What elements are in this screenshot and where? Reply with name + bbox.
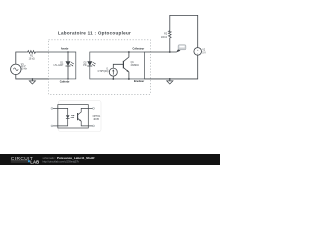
phototransistor sub-box — [90, 52, 145, 79]
junction collecteur R2 — [169, 51, 171, 53]
footer logo CIRCUITLAB — [11, 156, 40, 165]
svg-text:60 Hz: 60 Hz — [21, 69, 28, 71]
dashed model box — [49, 40, 151, 95]
wire R2 top to V2 — [170, 15, 198, 47]
voltage source V1 — [11, 64, 21, 74]
probe icon — [176, 45, 186, 53]
wire R1 to LED box anode corner — [36, 51, 48, 53]
junction I1-emitter rail — [112, 78, 114, 80]
terminal top-right — [93, 108, 95, 110]
voltage source V2 — [194, 48, 202, 56]
pin stub bottom-right — [88, 125, 92, 127]
svg-text:Cathode: Cathode — [60, 81, 70, 84]
footer text schematic name — [43, 156, 95, 164]
ground (right) — [167, 79, 173, 84]
svg-text:100 Ω: 100 Ω — [161, 37, 167, 39]
junction D1 anode rail — [67, 51, 68, 52]
U1 phototransistor — [78, 108, 89, 126]
pin stub bottom-left — [53, 125, 58, 127]
U1 internal LED — [58, 108, 70, 126]
wire V2 bottom to emetteur rail — [145, 55, 198, 79]
resistor R1 — [27, 51, 37, 54]
label R2 100 Ohm — [161, 34, 168, 39]
label OPTO1 4N35 — [93, 116, 101, 121]
junction D1 cathode rail — [67, 78, 68, 79]
label V1 — [21, 64, 28, 71]
LED D1 — [66, 52, 74, 79]
wire V1 top to R1 — [16, 52, 27, 64]
svg-text:Collecteur: Collecteur — [132, 48, 144, 51]
svg-text:LAB: LAB — [30, 159, 39, 164]
wire collecteur to probe — [145, 51, 177, 53]
wire I1 bottom to rail — [112, 76, 114, 79]
svg-text:Anode: Anode — [61, 47, 69, 50]
wire V1 bottom to LED box cathode corner — [16, 74, 49, 79]
U1 light arrows — [71, 115, 75, 118]
label Q1 2N3904 — [131, 62, 140, 67]
current source I1 — [109, 68, 117, 76]
terminal top-left — [51, 108, 53, 110]
transistor Q1 — [123, 52, 128, 79]
label I1 CTR x I(D1) — [98, 69, 109, 74]
svg-text:CTR*I(D1): CTR*I(D1) — [98, 71, 109, 73]
junction Q1 collector rail — [128, 51, 130, 53]
svg-text:5 V: 5 V — [202, 52, 206, 54]
terminal bottom-right — [93, 125, 95, 127]
label R1 10 kOhm — [29, 56, 35, 61]
svg-text:schematic : Puissance_Labo11_M: schematic : Puissance_Labo11_Modif — [43, 156, 95, 160]
terminal bottom-left — [51, 125, 53, 127]
junction Q1 emitter rail — [128, 78, 130, 80]
wire I1 top to Q1 base — [113, 64, 123, 68]
label V2 5 V — [202, 50, 206, 55]
pin stub top-left — [53, 107, 58, 109]
svg-text:Emetteur: Emetteur — [134, 80, 144, 83]
svg-text:Laboratoire 11 : Optocoupleur: Laboratoire 11 : Optocoupleur — [58, 31, 131, 36]
svg-text:4N35: 4N35 — [93, 119, 99, 121]
junction ground rail — [169, 78, 171, 80]
ground (left) — [29, 78, 35, 84]
LED sub-box (D1) — [49, 52, 76, 79]
svg-text:PD: PD — [83, 65, 87, 67]
footer bar — [0, 154, 220, 165]
label D1 LTL-4207 — [54, 62, 64, 67]
svg-text:10 kΩ: 10 kΩ — [29, 59, 35, 61]
label D2 — [83, 62, 87, 67]
wire R2 bottom — [169, 38, 171, 52]
optocoupler U1 symbol box — [58, 105, 89, 128]
pin stub top-right — [88, 107, 92, 109]
photodiode D2 — [87, 61, 95, 66]
svg-text:2N3904: 2N3904 — [131, 65, 140, 67]
resistor R2 — [169, 31, 172, 38]
svg-text:http://circuitlab.com/c/259mdj: http://circuitlab.com/c/259mdj57k — [43, 160, 80, 163]
hover highlight box — [59, 101, 102, 132]
svg-text:LTL-4207: LTL-4207 — [54, 65, 64, 67]
